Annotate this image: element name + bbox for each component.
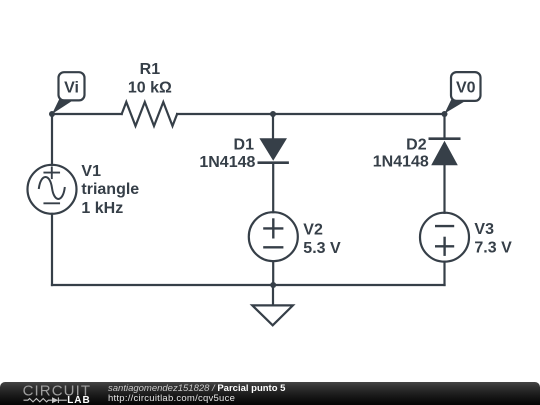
- wire Vi node down to V1: [51, 114, 53, 165]
- svg-text:LAB: LAB: [67, 395, 91, 405]
- svg-text:V0: V0: [456, 80, 476, 97]
- svg-text:5.3 V: 5.3 V: [303, 240, 341, 257]
- svg-text:V1: V1: [81, 163, 101, 180]
- svg-text:10 kΩ: 10 kΩ: [128, 80, 172, 97]
- svg-text:D2: D2: [406, 136, 427, 153]
- svg-text:1N4148: 1N4148: [373, 154, 429, 171]
- wire D1 to V2: [272, 163, 274, 213]
- svg-text:Vi: Vi: [64, 80, 79, 97]
- node A junction dot: [270, 111, 276, 117]
- wire V3 to bottom rail: [443, 262, 445, 285]
- svg-text:7.3 V: 7.3 V: [474, 240, 512, 257]
- CircuitLab logo: [0, 382, 100, 405]
- attribution text: [108, 384, 285, 403]
- svg-text:V3: V3: [474, 221, 494, 238]
- svg-text:triangle: triangle: [81, 181, 139, 198]
- footer attribution bar: [0, 382, 540, 405]
- svg-text:V2: V2: [303, 221, 323, 238]
- node Vi junction dot: [49, 111, 55, 117]
- wire node B down to diode D2: [443, 114, 445, 139]
- wire V1 to bottom rail: [51, 214, 53, 285]
- resistor R1: [122, 102, 177, 126]
- ground symbol: [252, 285, 293, 325]
- node flag V0: [445, 72, 481, 113]
- voltage source V2 (+ top, - bottom): [249, 212, 298, 261]
- node flag Vi: [52, 72, 85, 114]
- wire node A to node B: [273, 113, 445, 115]
- svg-text:D1: D1: [234, 136, 255, 153]
- wire D2 to V3: [443, 165, 445, 213]
- bottom rail wire: [52, 284, 445, 286]
- voltage source V3 (- top, + bottom): [420, 213, 469, 262]
- voltage source V1 (triangle function generator): [28, 165, 77, 214]
- wire R1 to node A: [177, 113, 273, 115]
- svg-text:R1: R1: [140, 61, 161, 78]
- node C junction dot (ground node): [270, 282, 276, 288]
- diode D1 (1N4148, anode up cathode down): [259, 138, 288, 162]
- svg-text:1N4148: 1N4148: [199, 154, 255, 171]
- node B junction dot: [442, 111, 448, 117]
- wire node A down to diode D1: [272, 114, 274, 139]
- wire top rail: Vi node to R1: [52, 113, 122, 115]
- svg-text:1 kHz: 1 kHz: [81, 200, 123, 217]
- wire V2 to bottom rail: [272, 261, 274, 285]
- diode D2 (1N4148, cathode up anode down): [430, 139, 459, 166]
